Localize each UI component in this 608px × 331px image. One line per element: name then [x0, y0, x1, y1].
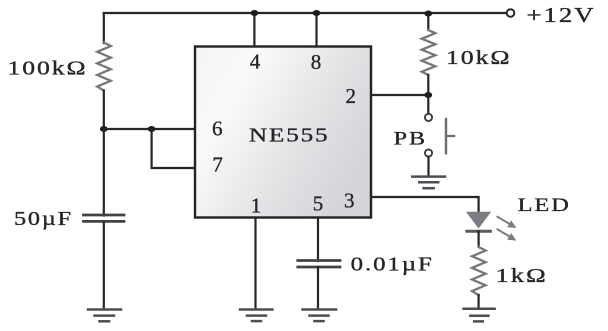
LED D1 cathode bar — [467, 230, 491, 233]
svg-text:8: 8 — [311, 50, 322, 74]
wire: pin 3 from chip right, over and down to LED anode — [371, 197, 479, 212]
wire: node C stub down to pushbutton — [427, 95, 429, 114]
LED light arrow 1 — [498, 217, 517, 228]
wire: 50uF bottom to ground — [103, 223, 105, 309]
svg-text:1: 1 — [251, 193, 262, 217]
svg-text:3: 3 — [344, 188, 355, 212]
pushbutton PB actuator tick — [446, 135, 454, 137]
svg-text:0.01µF: 0.01µF — [351, 253, 434, 275]
pushbutton PB top contact circle — [425, 114, 432, 121]
svg-text:5: 5 — [313, 192, 324, 216]
wire: node A to pin 6 of chip — [104, 128, 195, 130]
wire: 100k bottom lead down to node A — [103, 91, 105, 130]
svg-text:6: 6 — [212, 117, 223, 141]
wire: 100k top lead from rail — [103, 13, 105, 43]
resistor R2 10kΩ zigzag — [422, 30, 436, 75]
wire: node B down and right to pin 7 — [152, 129, 195, 168]
LED light arrow 2 — [498, 229, 517, 240]
svg-text:100kΩ: 100kΩ — [8, 57, 88, 79]
junction dot at pin 4 on rail — [251, 10, 259, 16]
wire: 0.01uF bottom to ground — [317, 267, 319, 309]
pushbutton PB bottom contact circle — [425, 149, 432, 156]
svg-text:LED: LED — [518, 195, 571, 216]
pushbutton PB actuator bar — [445, 119, 447, 153]
svg-text:2: 2 — [345, 84, 356, 108]
wire: 10k top lead from rail — [427, 13, 429, 30]
resistor R3 1kΩ zigzag — [472, 247, 486, 295]
wire: top supply rail from 100k top to +12V terminal — [104, 12, 506, 14]
capacitor C2 0.01uF plates — [298, 259, 340, 262]
pin 8 wire from rail into chip top — [315, 13, 317, 47]
ground G3 under pin 5 — [303, 310, 337, 322]
pin 4 wire from rail into chip top — [253, 13, 255, 47]
ground G5 under 1k — [464, 309, 495, 322]
wire: pin 5 down from chip bottom to 0.01uF top — [317, 218, 319, 262]
svg-text:PB: PB — [394, 128, 427, 149]
resistor R1 100kΩ zigzag — [97, 43, 111, 91]
junction dot at pin 8 on rail — [313, 10, 321, 16]
svg-text:NE555: NE555 — [249, 124, 330, 146]
svg-text:+12V: +12V — [527, 3, 596, 27]
wire: pin 1 down from chip bottom to ground — [254, 218, 256, 309]
svg-text:7: 7 — [212, 153, 223, 177]
node A junction dot (100k / pin6 / cap) — [100, 126, 108, 132]
svg-text:50µF: 50µF — [14, 208, 73, 230]
ground G1 under 50uF — [88, 310, 121, 322]
wire: node A down to 50uF capacitor top — [103, 129, 105, 216]
wire: pushbutton bottom to ground — [427, 157, 429, 176]
ground G2 under pin 1 — [240, 310, 272, 322]
terminal +12V open circle — [507, 9, 515, 17]
node B junction dot (branch to pin 7) — [148, 126, 156, 132]
wire: LED cathode down to 1k top — [478, 231, 480, 247]
wire: 1k bottom to ground — [478, 295, 480, 308]
wire: pin 2 from chip to node C — [371, 94, 428, 96]
node C junction dot (10k / pin2 / PB) — [424, 92, 432, 98]
svg-text:10kΩ: 10kΩ — [446, 47, 512, 69]
svg-text:1kΩ: 1kΩ — [496, 265, 548, 287]
svg-text:4: 4 — [250, 50, 261, 74]
junction dot at 10k on rail — [424, 11, 432, 17]
capacitor C1 50uF plates — [84, 214, 125, 217]
wire: 10k bottom lead to node C — [427, 75, 429, 95]
LED D1 triangle — [466, 212, 491, 229]
ground G4 under pushbutton — [412, 177, 445, 189]
